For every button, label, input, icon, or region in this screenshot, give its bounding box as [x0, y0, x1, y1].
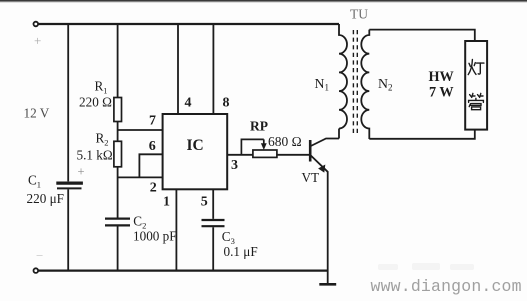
svg-text:IC: IC [187, 137, 204, 154]
svg-text:220 μF: 220 μF [27, 191, 64, 206]
svg-text:RP: RP [250, 119, 268, 134]
svg-text:2: 2 [150, 181, 157, 196]
svg-text:1: 1 [163, 194, 170, 209]
svg-text:7: 7 [149, 114, 156, 129]
svg-text:4: 4 [185, 96, 192, 111]
svg-text:N1: N1 [315, 76, 329, 93]
svg-text:680 Ω: 680 Ω [268, 134, 302, 149]
svg-text:+: + [78, 165, 85, 179]
svg-text:TU: TU [350, 7, 368, 22]
svg-text:−: − [36, 248, 43, 263]
svg-text:5: 5 [201, 194, 208, 209]
svg-text:HW: HW [429, 69, 454, 85]
svg-text:R1: R1 [95, 79, 108, 96]
svg-text:5.1 kΩ: 5.1 kΩ [77, 148, 113, 163]
svg-text:220 Ω: 220 Ω [79, 95, 112, 110]
svg-text:N2: N2 [378, 76, 392, 93]
svg-text:R2: R2 [96, 131, 109, 148]
svg-text:www.diangon.com: www.diangon.com [371, 277, 522, 296]
svg-text:+: + [34, 33, 41, 48]
svg-text:12 V: 12 V [24, 106, 50, 121]
svg-text:7 W: 7 W [429, 85, 454, 101]
svg-text:0.1 μF: 0.1 μF [224, 244, 258, 259]
svg-text:1000 pF: 1000 pF [133, 229, 177, 244]
svg-text:C1: C1 [28, 173, 41, 190]
svg-text:VT: VT [302, 170, 320, 185]
svg-text:3: 3 [231, 158, 238, 173]
svg-text:8: 8 [223, 96, 230, 111]
svg-text:6: 6 [149, 139, 156, 154]
